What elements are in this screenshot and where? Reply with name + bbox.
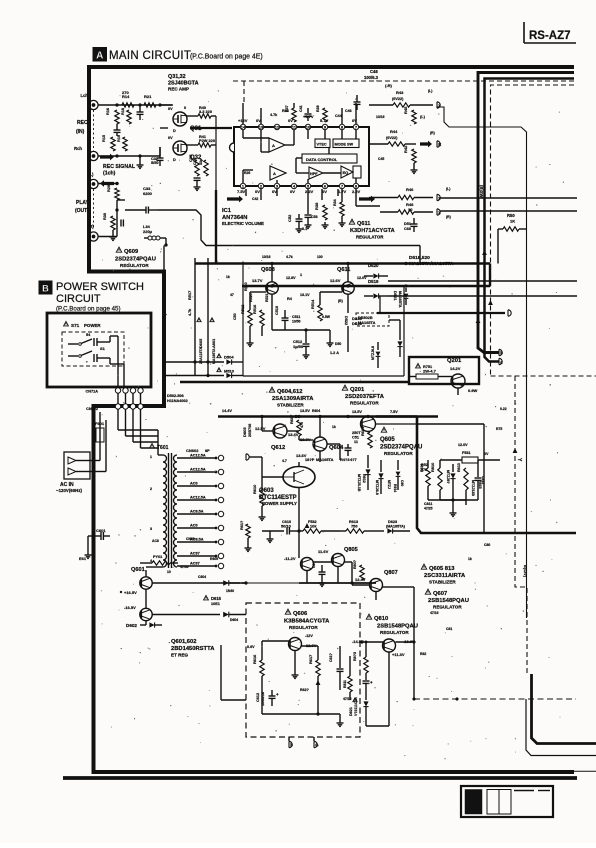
svg-text:R516: R516 [252,304,257,314]
svg-text:10/50: 10/50 [292,320,301,324]
svg-text:2SD2037EFTA: 2SD2037EFTA [345,394,385,400]
capacitor C510 [284,310,286,318]
svg-text:0.6V: 0.6V [247,645,255,649]
block DATA CONTROL in IC1 [302,154,357,163]
svg-text:2W-4.7: 2W-4.7 [423,369,437,374]
block outline right [403,287,405,376]
svg-text:R816: R816 [420,464,424,472]
transformer secondary taps [177,457,216,459]
power switch box B [47,313,151,387]
wire heavy rail top [218,415,417,418]
svg-text:10E1: 10E1 [211,602,220,606]
calibration black square [465,790,482,815]
svg-text:C604: C604 [198,575,206,579]
svg-text:R34: R34 [333,199,337,206]
svg-text:10/16: 10/16 [262,255,271,259]
wire bus rec to Q31 [160,104,173,106]
svg-text:C52: C52 [287,214,292,222]
resistor R14 270 [122,103,134,107]
svg-text:2.2V: 2.2V [305,189,314,194]
svg-text:D519: D519 [368,279,379,284]
svg-text:Q604: Q604 [329,445,344,451]
svg-text:13: 13 [259,125,264,130]
svg-text:0: 0 [184,106,186,110]
svg-text:-16.5V: -16.5V [124,605,136,610]
wires connector rows to transformer [117,393,119,404]
ground box2 [339,720,341,723]
svg-text:12: 12 [275,125,280,130]
wires right column vertical [427,460,429,468]
svg-text:CIRCUIT: CIRCUIT [56,293,101,305]
wires Q601 Q602 [145,570,147,577]
svg-text:(OUT): (OUT) [75,208,89,214]
IC IC1 AN7364N body [234,127,369,186]
svg-text:C813: C813 [481,476,485,484]
svg-text:C511: C511 [292,315,300,319]
svg-text:Q201: Q201 [447,358,462,364]
svg-text:R4?3: R4?3 [340,457,350,462]
transistor Q606 [289,638,302,651]
jack R ch rec [89,151,98,160]
op-amp A1 in IC1 [269,138,285,152]
svg-text:A801: A801 [211,338,216,348]
svg-text:(6V22): (6V22) [392,97,404,101]
svg-text:R44: R44 [390,129,398,134]
arrowhead on dashed line [513,448,518,453]
svg-text:R26: R26 [244,171,250,175]
arrowhead B+ rail [476,318,481,323]
wire heavy rail right drop [417,417,576,534]
svg-text:POWER SUPPLY: POWER SUPPLY [262,501,297,506]
transistor Q601 [140,577,152,589]
svg-text:C60: C60 [400,480,404,486]
svg-text:220µ: 220µ [143,229,153,234]
transistor Q605 on rail [361,417,376,432]
svg-text:1: 1 [300,273,302,277]
svg-text:2SB1548PQAU: 2SB1548PQAU [377,624,418,630]
svg-text:b: b [290,743,293,748]
svg-text:A: A [273,171,276,176]
calibration white cells [487,790,499,815]
svg-text:8P: 8P [205,449,210,453]
svg-text:(MA165TA): (MA165TA) [386,525,406,529]
svg-text:C45: C45 [378,157,384,161]
wire stubs IC bottom [260,189,262,200]
wires AC to switch [90,460,100,462]
diode D510 wire [217,368,221,372]
svg-text:VTEC: VTEC [317,143,327,147]
capacitor C823 [365,673,367,680]
svg-text:REGULATOR: REGULATOR [120,263,149,268]
svg-text:D50: D50 [335,342,341,346]
svg-text:1k: 1k [468,557,472,561]
wire Q605 collector right [375,423,417,425]
svg-text:REGULATOR: REGULATOR [433,605,462,610]
svg-text:R616: R616 [252,654,257,664]
svg-text:C46: C46 [345,109,352,113]
svg-text:HPF: HPF [310,172,318,176]
svg-text:Q605 813: Q605 813 [429,566,455,572]
svg-text:2SC3311AIRTA: 2SC3311AIRTA [424,573,466,579]
svg-text:ET REG: ET REG [171,653,189,658]
svg-text:B(12V): B(12V) [523,565,527,578]
svg-text:14.2V: 14.2V [450,366,461,371]
svg-text:R61?: R61? [240,520,244,530]
ground Q606 box [294,668,296,672]
transistor Q31 [173,112,187,126]
wires top rail right section [376,415,438,418]
svg-text:b: b [500,351,503,356]
svg-text:R512: R512 [240,304,245,314]
svg-text:Rch: Rch [74,146,82,151]
wire Q32 out [211,144,216,146]
wire dashed down right [515,376,527,676]
transistor Q608 wires [271,264,273,283]
resistor R816 [426,468,430,486]
svg-text:6200: 6200 [143,191,153,196]
svg-text:MA165TA/MA165TA: MA165TA/MA165TA [409,261,454,267]
svg-text:D821: D821 [349,707,353,716]
capacitor C32 [159,147,161,158]
main circuit border A [89,67,574,772]
svg-text:Q810: Q810 [374,616,388,622]
svg-text:POWER: POWER [84,323,101,328]
transistor Q611b [342,282,354,294]
arrow up in box [316,680,321,685]
op-amp A2 in IC1 [270,166,286,180]
section marker B [39,281,52,294]
label Q611 regulator [349,219,354,224]
svg-text:AC12.5A: AC12.5A [190,496,206,500]
svg-text:Q609: Q609 [124,249,139,255]
svg-text:A: A [96,51,103,62]
svg-text:3.3 220: 3.3 220 [199,109,212,114]
svg-text:S71: S71 [71,323,80,328]
resistor R813 [464,468,468,490]
ground C610 [269,531,271,536]
svg-text:4.7k: 4.7k [270,113,278,117]
svg-text:R37: R37 [285,105,289,112]
label Q609 regulator [116,247,121,252]
resistor R609 [368,432,372,448]
wire block bus [242,285,490,287]
transistor Q603 oval [283,467,315,488]
svg-text:2BD1450RSTTA: 2BD1450RSTTA [171,646,215,652]
transistor Q613 [301,558,314,571]
svg-text:REGULATOR: REGULATOR [289,625,318,630]
svg-text:+16.5V: +16.5V [124,590,137,595]
label Q606 K3B584ACYGTA [285,609,290,614]
svg-text:REGULATOR: REGULATOR [384,451,413,456]
label Q607 regulator [425,589,430,594]
label D605 rotated pair [197,318,201,322]
connector a [499,358,502,364]
svg-text:10: 10 [167,570,171,574]
transistor Q810 [383,639,396,652]
block MODE SW in IC1 [333,139,359,148]
svg-text:B: B [42,284,49,295]
wire left column verticals [194,258,196,376]
svg-text:4.7k: 4.7k [188,308,192,316]
svg-text:C510: C510 [275,306,279,315]
svg-text:D522: D522 [344,316,348,325]
calibration mark box [461,786,553,817]
resistor R21 [144,103,156,107]
jack L ch rec [89,100,98,109]
svg-text:-12V: -12V [305,634,313,638]
svg-text:MTZJ6.8: MTZJ6.8 [375,480,379,495]
svg-text:(L): (L) [446,187,450,191]
svg-text:EQ: EQ [343,170,349,175]
resistor R823 vertical [364,657,368,673]
svg-text:R609: R609 [360,426,365,436]
junction play wire [116,209,119,212]
capacitor C27 [139,105,141,112]
svg-text:2SA1309AIRTA: 2SA1309AIRTA [272,396,314,402]
svg-text:T601: T601 [157,445,169,451]
resistor R807 [360,565,364,580]
svg-text:0V: 0V [484,452,489,456]
capacitor C41 above IC [307,108,309,113]
svg-text:R39: R39 [316,105,320,112]
wire long vertical signal [437,107,527,618]
svg-text:R75: R75 [496,427,502,431]
model label RS-AZ7 frame [523,22,525,43]
svg-text:0.9W: 0.9W [468,388,478,393]
svg-text:K3B584ACYGTA: K3B584ACYGTA [284,619,330,625]
wire B+ rail top thick [478,73,574,353]
svg-text:R810: R810 [430,463,435,472]
wire to dashed junction [413,642,415,699]
svg-text:470: 470 [300,422,304,428]
svg-text:0.1: 0.1 [302,227,307,231]
svg-text:1K: 1K [510,219,515,224]
svg-text:D602: D602 [126,623,137,628]
resistor R810 vertical [438,468,442,490]
label Q605 regulator [381,427,386,432]
svg-text:MA165TA: MA165TA [316,457,334,462]
svg-text:3: 3 [150,527,152,531]
svg-text:D615: D615 [211,596,222,601]
svg-text:(B)SW: (B)SW [479,185,484,198]
junction rail dots [295,415,298,418]
svg-text:14: 14 [241,125,246,130]
svg-text:R510: R510 [244,282,248,291]
resistor R41 [187,144,198,146]
IC1 internal wires [242,130,244,138]
svg-text:F531: F531 [462,451,471,455]
capacitor C813 [477,470,479,477]
svg-text:MTZJ5.1B: MTZJ5.1B [357,474,361,492]
page bottom rule [63,776,577,780]
junction dashed [413,698,416,701]
svg-text:R30: R30 [103,213,107,220]
svg-text:12.0V: 12.0V [458,443,468,447]
svg-text:Q611: Q611 [357,221,370,227]
svg-text:11.6V: 11.6V [318,549,329,554]
svg-text:270: 270 [122,90,129,95]
wires Q606 [262,640,289,642]
resistor R710 [152,561,170,565]
wire dashed to right edge [491,375,596,377]
svg-text:12.5V: 12.5V [255,426,266,431]
block outline left [242,262,244,377]
fuse label in Q201 box [416,363,421,367]
svg-text:CN602: CN602 [186,448,199,453]
capacitor C53 [307,210,309,214]
arrow play out [100,180,114,187]
svg-text:C80: C80 [484,543,490,547]
svg-text:R517: R517 [187,291,192,300]
transformer primary wires [158,454,163,456]
capacitor C48 [356,95,358,102]
dashed drop left [243,81,245,103]
resistor R610 [260,490,264,506]
scatter specks [252,182,253,185]
wire D519 to edge [388,280,577,282]
svg-text:AC37: AC37 [190,552,200,556]
resistor R516 vertical [260,310,264,326]
capacitor C25 [116,124,118,130]
label S71 POWER [64,321,69,325]
section marker A [93,48,107,62]
svg-text:7.5V: 7.5V [390,410,398,414]
wire thick bottom mid [299,582,376,584]
svg-text:1: 1 [150,455,152,459]
svg-text:1N40: 1N40 [226,589,234,593]
svg-text:Q604,612: Q604,612 [277,389,302,395]
svg-text:H11NA4002: H11NA4002 [167,399,188,403]
svg-text:C41: C41 [299,105,303,112]
svg-text:R42: R42 [403,145,408,153]
svg-text:C42: C42 [252,197,258,201]
svg-text:E61: E61 [79,556,87,561]
svg-text:R80?: R80? [353,559,357,569]
svg-text:(-R): (-R) [385,83,393,88]
resistor R512 [248,310,252,326]
svg-text:R: R [438,142,441,147]
resistor R607 vertical [297,420,301,436]
fuse F601 [96,428,104,442]
svg-text:R19: R19 [117,135,121,142]
svg-text:(L): (L) [88,172,94,177]
jack pair link dashes [93,110,95,151]
svg-text:CN71A: CN71A [86,390,99,394]
wire D520 to edge [388,295,577,297]
svg-text:D520: D520 [368,263,379,268]
svg-text:Q201: Q201 [350,387,365,393]
resistor R29 [98,183,117,185]
regulator box Q201 [409,357,479,384]
svg-text:R605: R605 [210,557,218,561]
connector row 1 pins [115,388,120,393]
svg-text:R50: R50 [507,213,515,218]
svg-text:(P.C.Board on page 45): (P.C.Board on page 45) [56,306,121,313]
svg-text:D504: D504 [224,355,234,360]
svg-text:0V: 0V [255,189,260,194]
svg-text:R29: R29 [107,185,111,192]
svg-text:MTZJ8?: MTZJ8? [446,470,450,484]
svg-text:0V: 0V [290,189,295,194]
svg-text:13.5V: 13.5V [352,410,362,414]
resistor R39 above IC [323,108,327,122]
capacitor C806 [321,565,323,572]
svg-text:DC18: DC18 [352,322,362,326]
svg-text:G: G [315,743,318,748]
diode D523 [397,341,402,346]
svg-text:D605: D605 [242,427,247,437]
resistor R514 [318,305,322,321]
svg-text:C60: C60 [404,227,411,231]
label Y arrow2 [488,300,493,305]
wire thin lower right [526,699,596,756]
svg-text:ELECTRIC VOLUME: ELECTRIC VOLUME [222,221,264,226]
resistor R16 (vertical) [115,110,119,124]
svg-text:47/25: 47/25 [424,507,433,511]
svg-text:V?2111CTA: V?2111CTA [354,697,358,716]
dashed box around IC section [233,80,575,82]
transformer T601 [150,443,155,447]
svg-text:D: D [173,129,176,133]
svg-text:S1: S1 [100,346,106,351]
resistor R38 [323,205,327,220]
arrowhead rail2 [482,250,487,255]
capacitor C29 ground stub [139,156,141,162]
svg-text:0V: 0V [322,189,327,194]
svg-text:C51: C51 [352,436,359,440]
transistor Q611 wires [347,264,349,283]
resistor R45 vertical [412,110,416,124]
svg-text:R521: R521 [265,293,269,302]
wire Q603 connections [298,462,300,467]
svg-text:1k: 1k [226,275,230,279]
svg-text:AC0: AC0 [190,482,198,486]
resistor R40 3.3 220 [187,115,198,117]
wire drop from curved wire [419,246,421,264]
calibration top ticks [514,790,534,792]
svg-text:2SD2374PQAU: 2SD2374PQAU [115,257,156,263]
capacitor C46 [341,108,343,112]
connector x2 [437,141,440,147]
svg-text:(R): (R) [446,215,451,219]
rectifier DB502 dashed box [356,313,389,326]
svg-text:2SB798: 2SB798 [248,424,252,437]
svg-text:CN60: CN60 [186,537,195,541]
resistor R617 [316,660,320,676]
svg-text:0.22: 0.22 [500,407,507,411]
svg-text:Q601,602: Q601,602 [171,639,196,645]
svg-text:D: D [173,158,176,162]
svg-text:Q601: Q601 [131,567,145,573]
svg-text:Lch: Lch [81,93,89,98]
svg-text:C811: C811 [424,502,432,506]
svg-text:D51: D51 [404,222,411,226]
capacitor C52 [298,214,300,219]
zener D810 vertical [452,464,454,472]
svg-text:33µ: 33µ [199,159,203,165]
svg-text:4?7: 4?7 [350,457,357,462]
transistor Q604 [313,437,327,451]
svg-text:MTZJ13B: MTZJ13B [471,480,475,496]
capacitor C601 on border [94,535,102,537]
wire Q605 emitter to rail [417,423,484,425]
svg-text:4: 4 [150,559,152,563]
svg-text:7.5V: 7.5V [237,189,246,194]
wire curved to lower block [158,210,420,246]
label Q604,612 stabilizer [269,387,274,392]
wire block right thick drop [489,264,491,287]
svg-text:-11.2V: -11.2V [284,556,296,561]
